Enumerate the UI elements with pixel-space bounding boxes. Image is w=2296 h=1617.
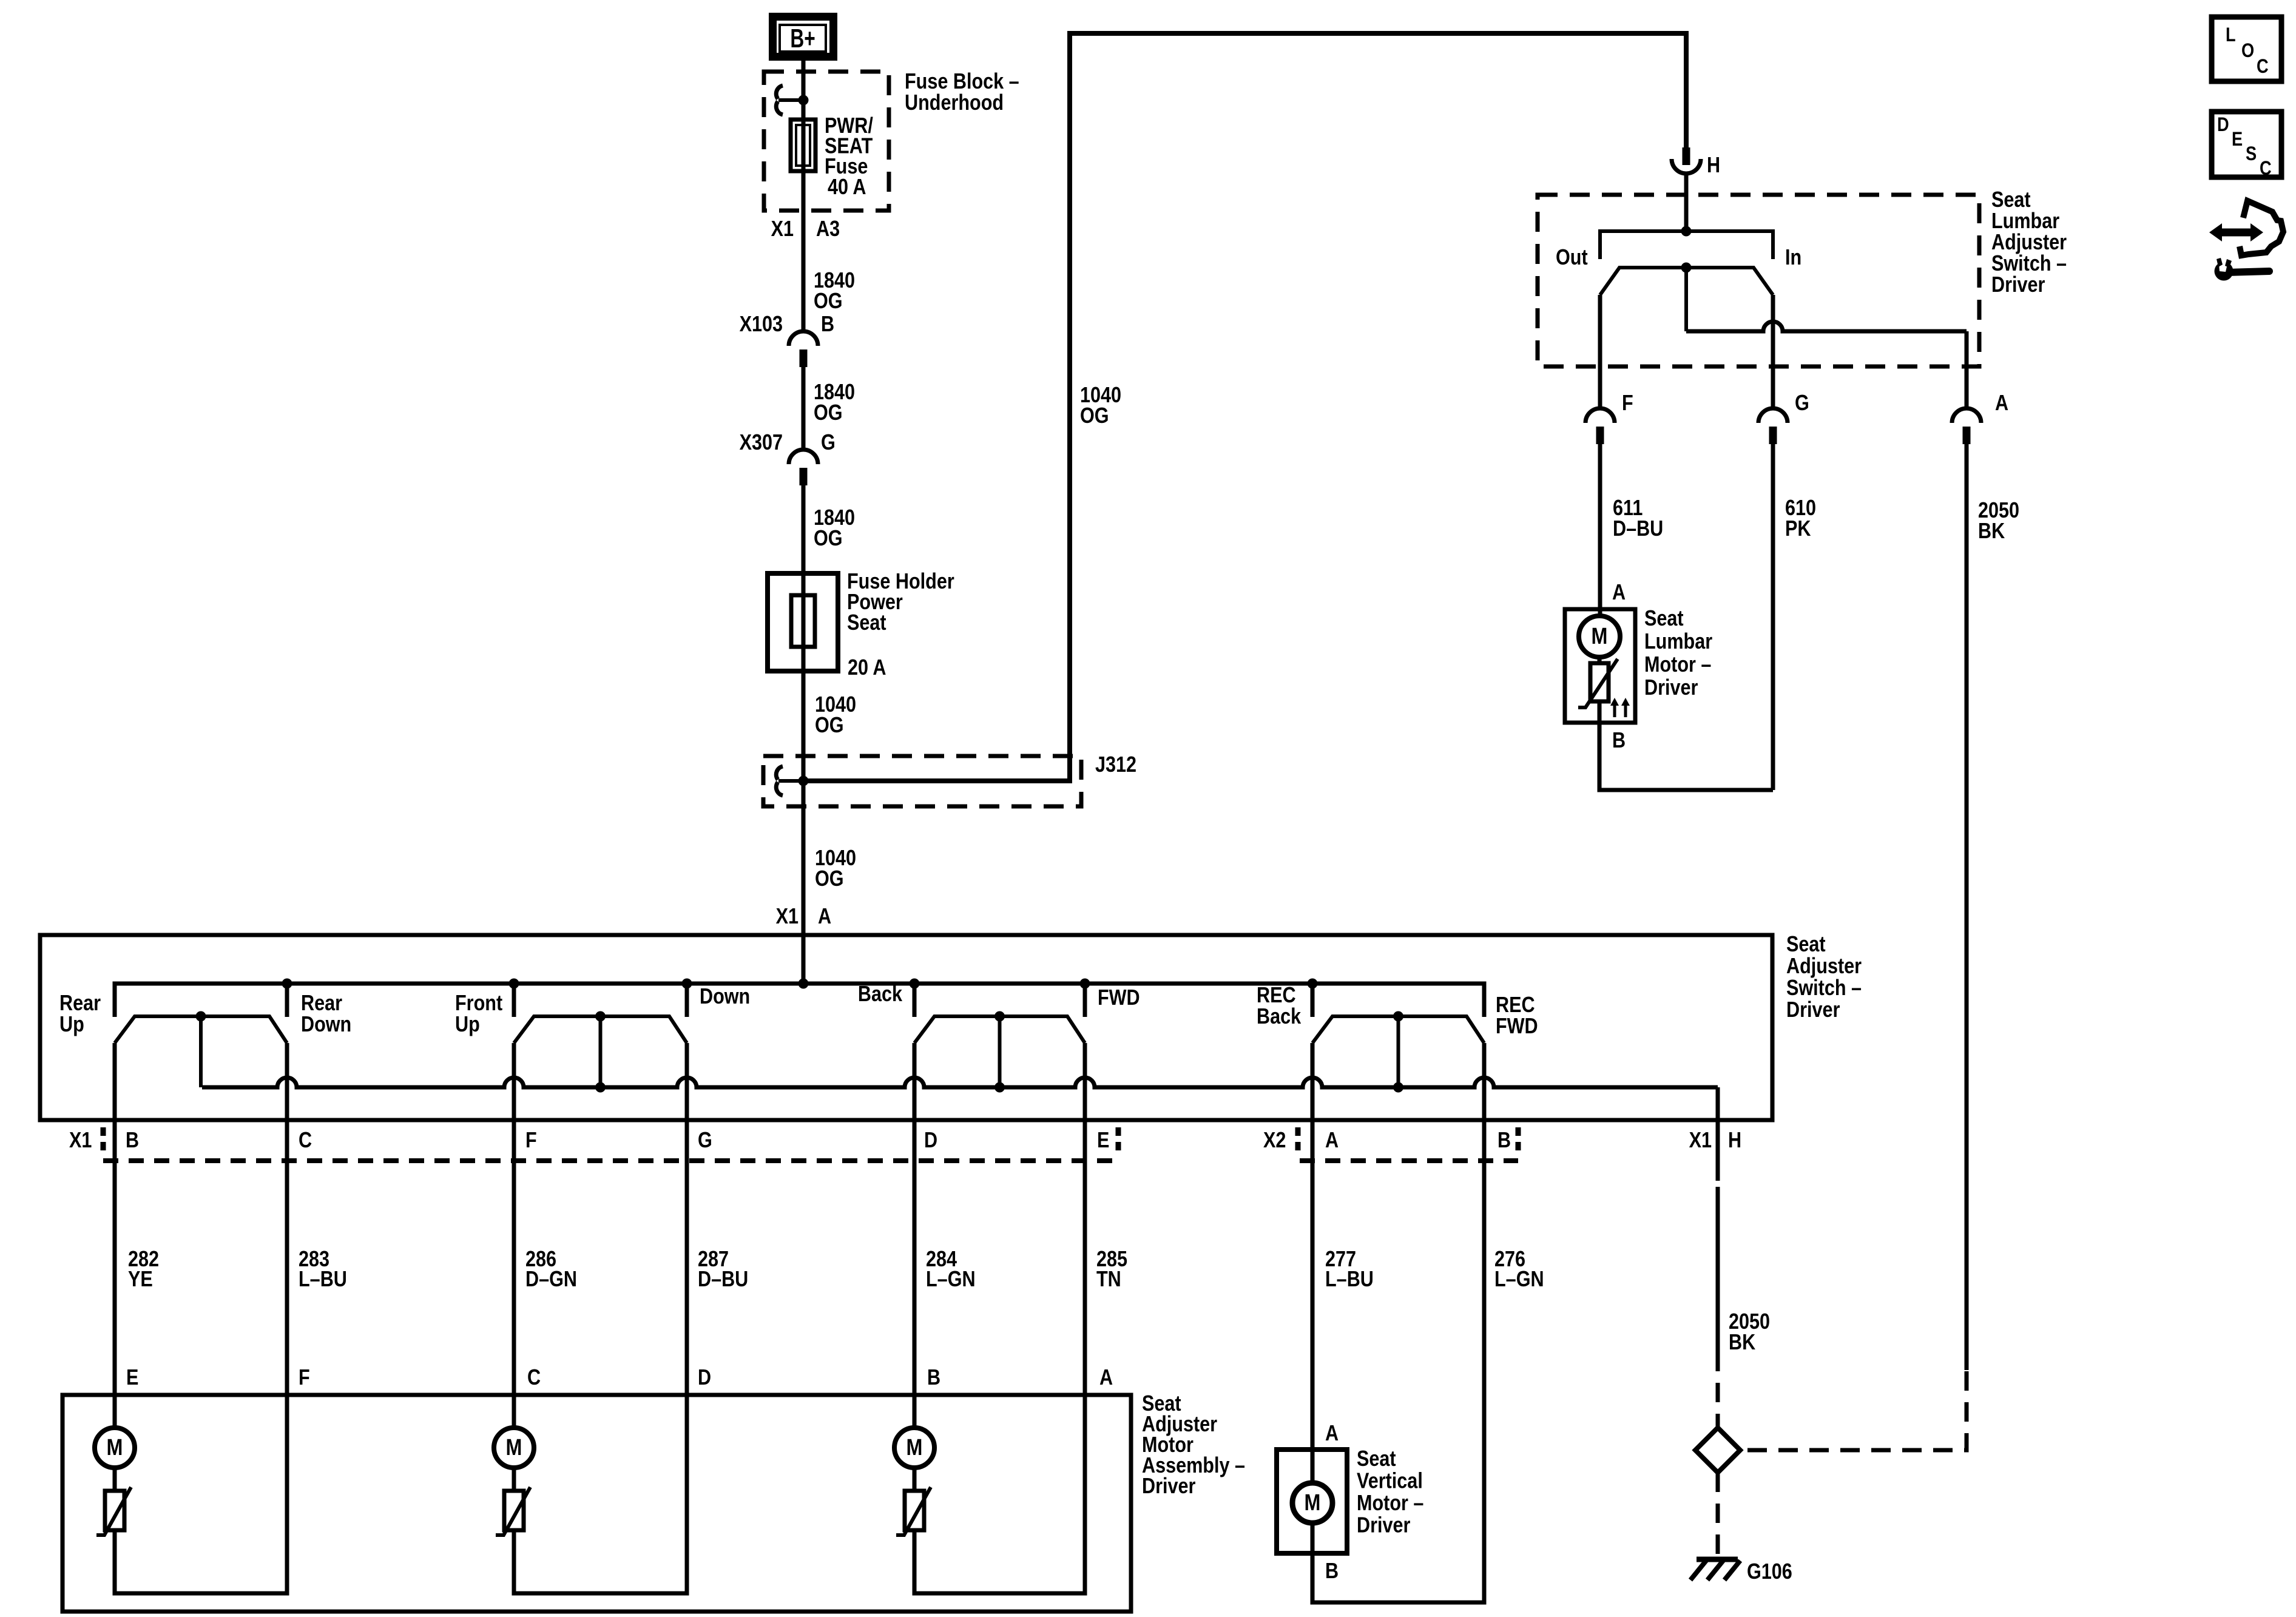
- wire motor M3 to breaker: [913, 1468, 917, 1491]
- svg-text:H: H: [1707, 154, 1720, 178]
- wire lumbar breaker to pin B: [1598, 701, 1602, 723]
- motor M5 seat lumbar: [1579, 616, 1620, 657]
- svg-text:Seat: Seat: [1991, 188, 2031, 212]
- svg-text:Switch –: Switch –: [1991, 252, 2067, 276]
- motor M3 horizontal/front/rear: [894, 1428, 934, 1468]
- svg-text:Vertical: Vertical: [1357, 1469, 1423, 1493]
- svg-text:X1: X1: [771, 217, 794, 241]
- switch wiper Front Up/Down: [514, 1011, 687, 1088]
- wire label 1040 OG (4): [815, 693, 856, 738]
- junction J312: [799, 776, 809, 786]
- wire label 283 L-BU: [299, 1247, 347, 1292]
- svg-text:REC: REC: [1257, 984, 1296, 1008]
- wire motor M2 to breaker: [512, 1468, 516, 1491]
- connector X2 dashed mark left: [1295, 1127, 1301, 1154]
- svg-text:YE: YE: [128, 1268, 153, 1292]
- junction bus stub x1507: [910, 979, 920, 989]
- wire vertical motor loop: [1312, 1043, 1484, 1602]
- svg-text:Driver: Driver: [1644, 676, 1698, 700]
- seat lumbar adjuster switch dashed box: [1538, 195, 1979, 366]
- svg-text:FWD: FWD: [1098, 986, 1140, 1010]
- svg-text:B: B: [1612, 729, 1626, 753]
- svg-text:Adjuster: Adjuster: [1991, 231, 2067, 255]
- svg-text:X1: X1: [69, 1129, 92, 1153]
- connector pin A (lumbar): [1952, 408, 1981, 444]
- seat adjuster switch driver box: [40, 935, 1772, 1120]
- connector X2 dashed line: [1300, 1158, 1518, 1163]
- ground symbol G106: [1690, 1559, 1740, 1580]
- seat lumbar motor box: [1565, 609, 1635, 723]
- svg-text:M: M: [907, 1435, 923, 1460]
- connector X307 pin G: [789, 450, 818, 485]
- svg-text:Switch –: Switch –: [1786, 976, 1862, 1001]
- connector X1 dashed line: [103, 1158, 1118, 1163]
- svg-text:X103: X103: [740, 312, 783, 337]
- connector pin G (lumbar): [1758, 408, 1788, 444]
- label Rear Up: [59, 991, 101, 1037]
- svg-text:X1: X1: [776, 905, 799, 929]
- svg-text:G106: G106: [1747, 1560, 1792, 1584]
- wire 1040 OG rail J312 to lumbar switch: [803, 33, 1686, 781]
- svg-text:X307: X307: [740, 431, 783, 455]
- svg-text:F: F: [1622, 391, 1633, 416]
- wire lumbar common down to A: [1965, 331, 1969, 408]
- svg-text:L–BU: L–BU: [299, 1268, 347, 1292]
- svg-text:Seat: Seat: [1644, 607, 1684, 631]
- svg-text:OG: OG: [815, 714, 844, 738]
- fixed contact stub x1788: [1083, 984, 1087, 1017]
- svg-text:Motor –: Motor –: [1357, 1491, 1423, 1516]
- svg-text:Fuse Block –: Fuse Block –: [905, 70, 1019, 94]
- svg-text:C: C: [2257, 56, 2269, 78]
- svg-text:D–GN: D–GN: [525, 1268, 577, 1292]
- junction bus stub x1132: [682, 979, 692, 989]
- wire splice to ground dashed: [1716, 1473, 1720, 1557]
- svg-text:FWD: FWD: [1496, 1014, 1538, 1039]
- svg-text:X1: X1: [1689, 1129, 1712, 1153]
- svg-text:B: B: [1325, 1559, 1339, 1584]
- svg-text:A: A: [1325, 1422, 1339, 1446]
- svg-text:B+: B+: [790, 24, 815, 53]
- wire motor M2 loop: [514, 1395, 687, 1593]
- wire label 282 YE: [128, 1247, 159, 1292]
- wire switch pin X2-A down to vertical motor: [1311, 1043, 1315, 1483]
- wire lumbar In to G: [1771, 295, 1775, 408]
- svg-text:BK: BK: [1978, 519, 2005, 544]
- svg-text:M: M: [506, 1435, 522, 1460]
- motor M4 seat vertical: [1292, 1483, 1332, 1523]
- wire label 2050 BK (seat): [1729, 1310, 1770, 1355]
- connector X103 pin B: [789, 331, 818, 367]
- label REC Back: [1257, 984, 1302, 1029]
- svg-text:Adjuster: Adjuster: [1786, 954, 1862, 979]
- svg-text:Motor –: Motor –: [1644, 653, 1711, 677]
- svg-text:Underhood: Underhood: [905, 91, 1004, 115]
- svg-text:J312: J312: [1095, 753, 1136, 777]
- wire label 284 L-GN: [926, 1247, 976, 1292]
- wire 610 PK to loop: [1771, 444, 1775, 790]
- fuse PWR/SEAT 40 A symbol: [791, 120, 815, 171]
- junction fuse feed: [799, 95, 809, 106]
- wire switch pin x847 down to motor assembly: [512, 1043, 516, 1428]
- wire label 1040 OG (rail): [1080, 383, 1121, 428]
- svg-text:C: C: [2260, 158, 2272, 180]
- svg-text:Driver: Driver: [1142, 1474, 1195, 1499]
- svg-text:B: B: [821, 312, 834, 337]
- connector X1 pin H (lumbar harness): [1672, 147, 1701, 174]
- svg-text:Rear: Rear: [59, 991, 101, 1016]
- svg-text:Driver: Driver: [1786, 998, 1840, 1022]
- svg-text:F: F: [525, 1129, 537, 1153]
- junction bus stub x847: [509, 979, 519, 989]
- wire motor M3 loop: [914, 1395, 1085, 1593]
- fixed contact stub x847: [512, 984, 516, 1017]
- label Front Up: [455, 991, 502, 1037]
- wire motor M1 to breaker: [113, 1468, 117, 1491]
- svg-text:G: G: [821, 431, 836, 455]
- wire lumbar Out to F: [1598, 295, 1602, 408]
- wire label 285 TN: [1096, 1247, 1127, 1292]
- svg-text:Seat: Seat: [847, 611, 886, 635]
- junction bus stub x473: [282, 979, 292, 989]
- wire switch pin x1132 down to motor assembly: [685, 1043, 689, 1395]
- junction wiper 4 common: [1393, 1082, 1403, 1093]
- splice diamond: [1695, 1428, 1740, 1473]
- svg-text:Lumbar: Lumbar: [1991, 209, 2059, 234]
- wire to fuse PWR/SEAT: [802, 100, 806, 331]
- svg-text:L: L: [2226, 24, 2236, 46]
- fixed contact stub x1132: [685, 984, 689, 1017]
- svg-text:D: D: [698, 1366, 711, 1390]
- svg-text:Seat: Seat: [1357, 1447, 1396, 1471]
- svg-text:E: E: [2232, 129, 2243, 150]
- switch wiper Rear Up/Down: [115, 1011, 287, 1088]
- wire label 1840 OG (3): [814, 506, 855, 551]
- svg-text:S: S: [2246, 143, 2257, 165]
- connector X1 dashed mark right: [1116, 1127, 1121, 1154]
- switch wiper REC Back/FWD: [1312, 1011, 1484, 1088]
- label Fuse Holder Power Seat: [847, 570, 954, 635]
- junction bus stub x1788: [1080, 979, 1090, 989]
- bus clip at J312: [776, 766, 803, 795]
- svg-text:A: A: [818, 905, 831, 929]
- wire H into lumbar switch: [1684, 174, 1689, 231]
- wire label 610 PK: [1785, 496, 1816, 541]
- wire label 1040 OG (5): [815, 846, 856, 891]
- thermal breaker lumbar motor: [1578, 659, 1618, 707]
- wire common to X1-H: [1716, 1087, 1720, 1120]
- svg-text:Out: Out: [1556, 246, 1588, 270]
- seat adjuster motor assembly box: [62, 1395, 1131, 1612]
- wire switch pin x189 down to motor assembly: [113, 1043, 117, 1428]
- svg-text:In: In: [1785, 246, 1801, 270]
- label Seat Vertical Motor - Driver: [1357, 1447, 1423, 1538]
- svg-text:Lumbar: Lumbar: [1644, 630, 1712, 654]
- svg-text:L–BU: L–BU: [1325, 1268, 1374, 1292]
- switch feed bus: [115, 984, 1484, 1017]
- lumbar switch contact bar: [1600, 231, 1773, 259]
- thermal breaker motor M1: [96, 1487, 131, 1535]
- wire B+ to fuse block: [802, 60, 806, 100]
- wire label 286 D-GN: [525, 1247, 577, 1292]
- svg-text:X2: X2: [1263, 1129, 1286, 1153]
- icon harness navigation arrow: [2209, 201, 2283, 255]
- svg-text:A: A: [1612, 581, 1626, 605]
- label Rear Down: [301, 991, 351, 1037]
- junction lumbar feed: [1681, 226, 1692, 237]
- switch wiper Back/FWD: [914, 1011, 1085, 1088]
- svg-text:L–GN: L–GN: [1494, 1268, 1544, 1292]
- svg-text:D: D: [2217, 114, 2229, 136]
- svg-text:REC: REC: [1496, 993, 1535, 1018]
- junction bus feed: [799, 979, 809, 989]
- splice J312 dashed box: [763, 756, 1081, 806]
- seat vertical motor box: [1277, 1450, 1347, 1553]
- icon box DESC: [2212, 112, 2281, 180]
- wire motor M1 loop: [115, 1395, 287, 1593]
- svg-text:OG: OG: [814, 289, 843, 314]
- svg-text:G: G: [1795, 391, 1809, 416]
- motor M2 horizontal/front/rear: [494, 1428, 534, 1468]
- wire 2050 BK dashed to splice: [1716, 1352, 1720, 1428]
- battery feed B+ symbol: [773, 17, 834, 57]
- svg-text:F: F: [299, 1366, 310, 1390]
- bus clip in fuse block: [776, 86, 803, 115]
- svg-text:Down: Down: [700, 985, 750, 1009]
- svg-text:B: B: [126, 1129, 139, 1153]
- connector pin F (lumbar): [1585, 408, 1615, 444]
- svg-text:A3: A3: [816, 217, 840, 241]
- svg-text:E: E: [1097, 1129, 1109, 1153]
- fixed contact stub x473: [285, 984, 289, 1017]
- svg-text:C: C: [527, 1366, 541, 1390]
- svg-text:D–BU: D–BU: [698, 1268, 748, 1292]
- svg-text:B: B: [927, 1366, 940, 1390]
- lumbar wiper common to A: [1686, 322, 1967, 331]
- icon box LOC: [2212, 17, 2281, 81]
- junction wiper 2 common: [595, 1082, 606, 1093]
- svg-text:M: M: [1592, 624, 1608, 649]
- wire J312 to seat adjuster switch X1-A: [802, 781, 806, 984]
- switch common return line: [202, 1078, 1718, 1087]
- svg-text:E: E: [126, 1366, 138, 1390]
- svg-text:M: M: [107, 1435, 123, 1460]
- label Seat Adjuster Switch - Driver: [1786, 933, 1862, 1022]
- fixed contact stub x1507: [913, 984, 917, 1017]
- wire label 276 L-GN: [1494, 1247, 1544, 1292]
- svg-text:PK: PK: [1785, 517, 1811, 541]
- label PWR/SEAT Fuse 40 A: [825, 114, 873, 179]
- wire 611 D-BU to lumbar motor: [1598, 444, 1602, 616]
- wire switch pin x1507 down to motor assembly: [913, 1043, 917, 1428]
- junction bus stub x2163: [1308, 979, 1318, 989]
- wire X103 to X307: [802, 367, 806, 450]
- wire label 277 L-BU: [1325, 1247, 1374, 1292]
- svg-text:A: A: [1995, 391, 2008, 416]
- svg-text:M: M: [1305, 1490, 1321, 1516]
- fuse holder power seat 20 A: [768, 573, 838, 671]
- thermal breaker motor M3: [896, 1487, 931, 1535]
- label Seat Adjuster Motor Assembly - Driver: [1142, 1392, 1245, 1499]
- svg-text:TN: TN: [1096, 1268, 1121, 1292]
- wire switch pin x1788 down to motor assembly: [1083, 1043, 1087, 1395]
- connector X1 dashed mark: [101, 1127, 106, 1154]
- wire label 1840 OG (2): [814, 380, 855, 425]
- svg-text:OG: OG: [1080, 404, 1109, 428]
- svg-text:Rear: Rear: [301, 991, 342, 1016]
- svg-text:D–BU: D–BU: [1613, 517, 1663, 541]
- svg-text:Back: Back: [1257, 1005, 1302, 1029]
- wire splice to 2050 BK rail dashed: [1747, 1370, 1967, 1450]
- svg-text:L–GN: L–GN: [926, 1268, 976, 1292]
- svg-text:Up: Up: [59, 1013, 84, 1037]
- connector X2 dashed mark right: [1516, 1127, 1521, 1154]
- svg-text:OG: OG: [815, 867, 844, 891]
- svg-text:Front: Front: [455, 991, 502, 1016]
- svg-text:40 A: 40 A: [828, 175, 866, 200]
- wire 2050 BK down right rail: [1965, 444, 1969, 1370]
- label Fuse Block - Underhood: [905, 70, 1019, 115]
- wire label 611 D-BU: [1613, 496, 1663, 541]
- motor M1 horizontal/front/rear: [95, 1428, 135, 1468]
- wire X307 through fuse holder to J312: [802, 485, 806, 781]
- svg-text:C: C: [299, 1129, 312, 1153]
- wire label 2050 BK (lumbar): [1978, 499, 2019, 544]
- direction arrows lumbar motor: [1610, 698, 1630, 717]
- svg-text:G: G: [698, 1129, 712, 1153]
- icon wrench: [2215, 257, 2270, 281]
- wire label 287 D-BU: [698, 1247, 748, 1292]
- svg-text:B: B: [1497, 1129, 1511, 1153]
- svg-text:A: A: [1099, 1366, 1113, 1390]
- label Seat Lumbar Adjuster Switch - Driver: [1991, 188, 2067, 297]
- svg-text:Up: Up: [455, 1013, 480, 1037]
- svg-text:D: D: [924, 1129, 937, 1153]
- svg-text:Seat: Seat: [1786, 933, 1826, 957]
- wire lumbar motor M to breaker: [1598, 657, 1602, 663]
- svg-text:20 A: 20 A: [848, 656, 886, 680]
- wire X1-H down (with connector gap): [1716, 1120, 1720, 1352]
- wire lumbar motor loop: [1599, 723, 1773, 790]
- svg-text:OG: OG: [814, 401, 843, 425]
- thermal breaker motor M2: [496, 1487, 530, 1535]
- wire label 1840 OG (1): [814, 269, 855, 314]
- wire switch pin x473 down to motor assembly: [285, 1043, 289, 1395]
- svg-text:Back: Back: [858, 982, 903, 1007]
- fuse block underhood dashed box: [764, 72, 889, 211]
- svg-text:Down: Down: [301, 1013, 351, 1037]
- svg-text:O: O: [2241, 40, 2254, 62]
- lumbar switch wiper: [1600, 263, 1773, 332]
- svg-text:H: H: [1728, 1129, 1741, 1153]
- label REC FWD: [1496, 993, 1538, 1039]
- label Seat Lumbar Motor - Driver: [1644, 607, 1712, 700]
- svg-text:A: A: [1325, 1129, 1339, 1153]
- svg-text:BK: BK: [1729, 1331, 1755, 1355]
- svg-text:Driver: Driver: [1991, 273, 2045, 297]
- svg-text:Driver: Driver: [1357, 1513, 1410, 1538]
- svg-text:OG: OG: [814, 527, 843, 551]
- junction wiper 3 common: [994, 1082, 1005, 1093]
- fixed contact stub x2163: [1311, 984, 1315, 1017]
